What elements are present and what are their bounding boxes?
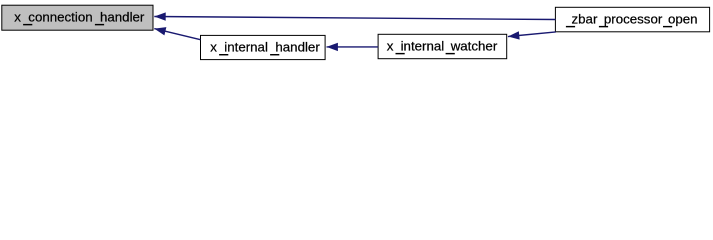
svg-text:x: x xyxy=(14,9,21,24)
svg-text:x: x xyxy=(387,38,394,53)
edge x_internal_watcher -> x_internal_handler xyxy=(327,46,379,48)
node _zbar_processor_open xyxy=(555,7,709,32)
edge _zbar_processor_open -> x_connection_handler xyxy=(154,17,555,20)
svg-text:x: x xyxy=(210,40,217,55)
svg-text:processor: processor xyxy=(604,11,663,26)
node x_internal_watcher xyxy=(378,34,507,58)
edge x_internal_handler -> x_connection_handler xyxy=(154,29,200,40)
svg-text:handler: handler xyxy=(100,9,145,24)
svg-text:internal: internal xyxy=(401,38,445,53)
edge _zbar_processor_open -> x_internal_watcher xyxy=(508,32,556,37)
svg-text:internal: internal xyxy=(224,40,268,55)
svg-text:watcher: watcher xyxy=(450,38,498,53)
svg-text:open: open xyxy=(668,11,698,26)
svg-text:zbar: zbar xyxy=(572,11,598,26)
node x_internal_handler xyxy=(201,35,326,59)
svg-text:handler: handler xyxy=(275,40,320,55)
svg-text:connection: connection xyxy=(28,9,92,24)
node x_connection_handler (current node, grey) xyxy=(2,5,153,30)
